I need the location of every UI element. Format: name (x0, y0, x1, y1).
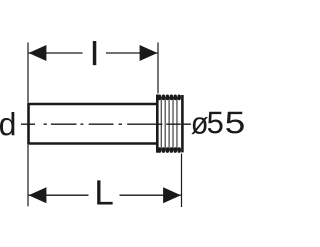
extension line right bottom (thread end) (181, 154, 183, 208)
thread flank line 4 (172, 97, 174, 151)
label 5 second (226, 112, 244, 134)
thread crest bead bottom 1 (158, 147, 162, 153)
thread crest bead top 2 (162, 95, 166, 101)
pipe body (29, 104, 158, 144)
thread crest bead top 6 (177, 95, 181, 101)
thread flank line 5 (176, 97, 178, 151)
arrowhead L left (29, 187, 47, 203)
label l (93, 41, 96, 64)
thread crest bead bottom 5 (173, 147, 177, 153)
label L (97, 180, 112, 204)
thread crest bead top 4 (170, 95, 174, 101)
thread crest bead bottom 2 (162, 147, 166, 153)
thread crest bead top 1 (158, 95, 162, 101)
arrowhead l left (29, 45, 47, 61)
extension line right top (thread start) (157, 43, 159, 94)
thread flank line 2 (164, 97, 166, 151)
label d (0, 112, 14, 136)
thread right edge (181, 95, 184, 152)
thread flank line 3 (168, 97, 170, 151)
extension line left top (27, 43, 29, 103)
thread crest bead bottom 4 (170, 147, 174, 153)
thread crest bead top 5 (173, 95, 177, 101)
thread crest bead bottom 6 (177, 147, 181, 153)
dimension line l (top) left segment (29, 52, 83, 54)
dimension line L (bottom) right segment (120, 194, 181, 196)
dimension line L (bottom) left segment (29, 194, 89, 196)
thread left edge (156, 95, 159, 153)
extension line left bottom (27, 145, 29, 206)
centerline (dash-dot axis) (21, 123, 191, 125)
thread flank line 1 (160, 97, 162, 151)
label oslash (191, 117, 207, 134)
arrowhead l right (140, 45, 158, 61)
dimension line l (top) right segment (106, 52, 157, 54)
label 5 first (208, 112, 223, 134)
arrowhead L right (163, 187, 181, 203)
thread crest bead bottom 3 (166, 147, 170, 153)
thread crest bead top 3 (166, 95, 170, 101)
